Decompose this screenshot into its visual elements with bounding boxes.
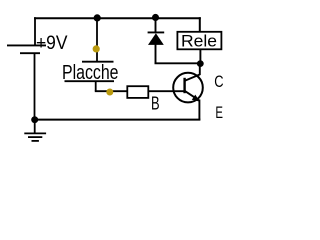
svg-text:+9V: +9V <box>36 33 68 54</box>
svg-text:C: C <box>214 72 223 91</box>
svg-text:B: B <box>151 93 160 114</box>
svg-text:Rele: Rele <box>181 32 217 51</box>
svg-text:E: E <box>215 103 223 122</box>
